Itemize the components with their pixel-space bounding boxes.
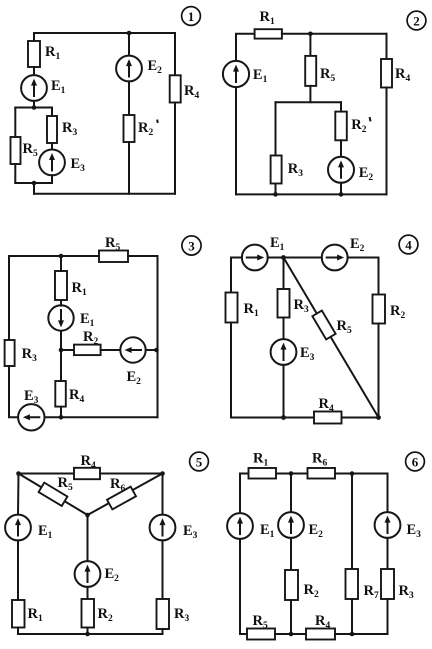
wire R2 to bottom rail: [128, 142, 130, 194]
resistor R1: [12, 600, 43, 628]
svg-text:R3: R3: [294, 297, 309, 315]
wire R3 to bottom rail: [275, 184, 277, 195]
resistor R2: [74, 329, 101, 355]
wire E1 to node: [268, 257, 284, 259]
wire R4 to bottom rail: [174, 103, 176, 194]
source E2: [120, 337, 145, 387]
svg-text:R4: R4: [184, 83, 199, 101]
node right branch / E2 junction: [154, 348, 159, 353]
wire bottom rail circuit 5: [18, 633, 163, 635]
svg-text:R5: R5: [337, 318, 352, 336]
svg-text:R4: R4: [81, 453, 96, 471]
resistor R7: [346, 569, 379, 601]
wire E2 to right branch: [146, 349, 158, 351]
resistor R1: [28, 41, 60, 67]
svg-text:E3: E3: [183, 523, 198, 541]
wire right branch: [157, 256, 159, 417]
node bottom rail / R4 branch: [59, 415, 64, 420]
resistor R4: [306, 613, 335, 640]
resistor R4: [314, 396, 342, 424]
wire right branch to E3: [387, 474, 389, 513]
wire right sub-branch down to R2: [340, 102, 342, 111]
wire R3 to bottom rail: [162, 629, 164, 634]
svg-text:E3: E3: [407, 522, 422, 540]
resistor R5: [99, 235, 128, 262]
svg-text:R4: R4: [69, 387, 84, 405]
svg-text:R4: R4: [315, 613, 330, 631]
wire E1 to R1: [60, 300, 62, 306]
svg-text:E2: E2: [309, 522, 324, 540]
wire E1 to bottom rail: [235, 87, 237, 194]
svg-text:4: 4: [405, 237, 412, 252]
wire R4 top lead: [174, 33, 176, 75]
wire bottom rail circuit 1: [34, 193, 175, 195]
svg-text:3: 3: [188, 238, 195, 253]
source E1: [5, 515, 53, 541]
source E2: [328, 157, 373, 183]
wire left branch to E1: [239, 474, 241, 514]
resistor R1: [255, 9, 282, 39]
wire R4 to middle node: [60, 350, 62, 381]
wire left branch down: [230, 258, 232, 293]
wire E2 to R2: [290, 538, 292, 570]
wire top rail segment 2: [276, 473, 308, 475]
resistor R3: [278, 289, 309, 318]
svg-text:R3: R3: [22, 346, 37, 364]
resistor R5: [247, 613, 275, 640]
resistor R1: [55, 271, 87, 300]
wire top rail segment 1: [240, 473, 249, 475]
resistor R2: [373, 295, 406, 324]
resistor R2: [124, 115, 158, 142]
wire node to R2: [61, 349, 74, 351]
wire bottom rail segment 2: [275, 633, 306, 635]
node top rail / R5 branch: [308, 32, 313, 37]
wire R1 top lead: [33, 33, 35, 41]
wire E2 branch top lead: [290, 474, 292, 513]
node bottom rail / R3 branch: [281, 415, 286, 420]
svg-text:E1: E1: [80, 311, 95, 329]
wire R3 to E3: [51, 143, 53, 150]
wire bottom rail right of R4: [342, 417, 379, 419]
svg-text:5: 5: [196, 454, 203, 469]
source E1: [223, 61, 268, 87]
svg-text:R3: R3: [174, 606, 189, 624]
node top left corner: [16, 471, 21, 476]
node top right corner: [160, 471, 165, 476]
svg-text:R2: R2: [304, 582, 319, 600]
wire E2 to bottom rail: [340, 183, 342, 195]
wire E2 to top right corner: [348, 257, 379, 259]
svg-text:E2: E2: [350, 236, 365, 254]
svg-text:R5: R5: [58, 475, 73, 493]
wire E1 to split node: [33, 101, 35, 108]
node top rail / E2 branch: [289, 471, 294, 476]
svg-text:R7: R7: [364, 583, 379, 601]
wire center node to E2: [87, 515, 89, 561]
wire R5 top lead: [309, 34, 311, 56]
wire bottom rail segment 3: [335, 633, 388, 635]
svg-text:R1: R1: [45, 44, 60, 62]
node center star point: [85, 513, 90, 518]
wire bottom rail circuit 2: [236, 193, 387, 195]
svg-text:E3: E3: [71, 156, 86, 174]
wire node to E2: [284, 257, 322, 259]
svg-text:E1: E1: [270, 235, 285, 253]
wire R3 to bottom rail: [387, 599, 389, 634]
svg-text:R3: R3: [62, 120, 77, 138]
svg-text:E1: E1: [38, 523, 53, 541]
svg-text:1: 1: [188, 9, 195, 24]
source E3: [18, 388, 44, 430]
node split below E1: [32, 105, 37, 110]
wire split horizontal: [15, 107, 52, 109]
resistor R2: [82, 599, 113, 628]
wire right diagonal: [88, 474, 163, 516]
wire R1 to top rail: [60, 256, 62, 271]
node top rail / R7 branch: [350, 471, 355, 476]
wire R5 to split: [309, 86, 311, 102]
svg-text:R5: R5: [105, 235, 120, 253]
wire left branch down to R3: [8, 256, 10, 340]
wire top rail left of R5: [9, 255, 99, 257]
wire left sub-branch down to R3: [275, 102, 277, 155]
svg-text:2: 2: [413, 13, 420, 28]
svg-text:E3: E3: [24, 388, 39, 406]
resistor R4: [170, 75, 200, 102]
svg-text:E1: E1: [51, 78, 66, 96]
svg-text:R2: R2: [138, 120, 153, 138]
wire R2 to bottom rail: [290, 600, 292, 634]
svg-text:R4: R4: [319, 396, 334, 414]
svg-text:R1: R1: [260, 9, 275, 27]
resistor R3: [47, 116, 77, 143]
resistor R3: [5, 340, 37, 366]
resistor R5: [305, 56, 335, 86]
resistor R6: [308, 451, 336, 479]
wire top rail circuit 1: [34, 32, 175, 34]
resistor R3: [381, 569, 414, 601]
resistor R2: [285, 570, 319, 600]
wire left sub-branch down: [14, 108, 16, 138]
wire right sub-branch down: [51, 108, 53, 117]
resistor R1: [249, 451, 277, 479]
svg-text:R3: R3: [399, 583, 414, 601]
wire R3 to bottom corner: [9, 366, 18, 417]
svg-text:R1: R1: [72, 280, 87, 298]
wire split horizontal: [276, 101, 342, 103]
svg-text:R1: R1: [28, 606, 43, 624]
wire node up to E1: [60, 330, 62, 350]
circled number 3: [182, 236, 201, 255]
wire E2 to R2: [128, 81, 130, 115]
wire R2 to E2: [340, 140, 342, 157]
wire top rail right of R1: [282, 33, 387, 35]
svg-text:6: 6: [412, 454, 419, 469]
wire E1 to bottom rail: [239, 539, 241, 634]
node bottom rail / E2 branch: [289, 632, 294, 637]
source E2: [322, 236, 365, 270]
node R3 bottom junction: [273, 192, 278, 197]
svg-text:E3: E3: [300, 345, 315, 363]
circled number 1: [182, 7, 201, 26]
node bottom loop junction: [32, 181, 37, 186]
wire diagonal for R5: [284, 258, 379, 418]
wire E3 to R3: [162, 540, 164, 599]
wire R4 to bottom rail: [386, 88, 388, 195]
source E1: [48, 305, 94, 330]
svg-text:R5: R5: [320, 66, 335, 84]
wire left diagonal: [19, 474, 88, 516]
node junction top rail / E2 branch: [127, 31, 132, 36]
resistor R4: [55, 381, 84, 407]
wire R1 to E1: [33, 67, 35, 75]
wire bottom rail segment 1: [240, 633, 247, 635]
resistor R5: [11, 137, 38, 164]
wire bottom rail left of R4: [231, 417, 314, 419]
svg-text:R6: R6: [110, 476, 125, 494]
resistor R3: [271, 156, 304, 184]
svg-text:E1: E1: [253, 67, 268, 85]
circled number 2: [407, 11, 426, 30]
svg-text:R5: R5: [23, 141, 38, 159]
wire top rail segment 3: [335, 473, 388, 475]
wire R1 to bottom rail: [17, 628, 19, 635]
svg-text:E1: E1: [260, 522, 275, 540]
node E2 bottom junction: [339, 192, 344, 197]
node bottom right corner: [376, 415, 381, 420]
wire R4 bottom lead: [60, 407, 62, 418]
resistor R5: [312, 311, 352, 340]
wire R3 to E3: [283, 318, 285, 340]
wire right branch down: [378, 258, 380, 295]
wire bottom rail: [45, 416, 158, 418]
node bottom rail center: [85, 632, 90, 637]
svg-text:R5: R5: [253, 613, 268, 631]
resistor R1: [226, 293, 259, 323]
wire right branch to E3: [162, 474, 164, 515]
wire top rail left of R4: [19, 473, 75, 475]
resistor R6: [107, 476, 136, 509]
wire R1 to bottom rail: [230, 323, 232, 418]
source E3: [39, 150, 85, 176]
wire top rail right of R4: [100, 473, 163, 475]
wire left branch to E1: [17, 474, 20, 515]
wire stub to bottom rail: [33, 183, 35, 194]
resistor R4: [74, 453, 100, 479]
wire node down to R3: [283, 258, 285, 290]
svg-text:E2: E2: [127, 369, 142, 387]
resistor R3: [157, 599, 190, 629]
wire R7 to bottom rail: [351, 599, 353, 634]
node top junction: [281, 255, 286, 260]
svg-text:R2: R2: [98, 606, 113, 624]
wire top rail right of R5: [128, 255, 158, 257]
circled number 5: [190, 452, 209, 471]
wire top rail left segment: [231, 257, 242, 259]
node middle (R2 junction): [59, 348, 64, 353]
svg-text:R1: R1: [244, 301, 259, 319]
wire R5 to bottom loop: [14, 164, 16, 183]
source E1: [21, 75, 66, 101]
svg-text:R2: R2: [351, 117, 366, 135]
svg-text:R6: R6: [312, 451, 327, 469]
wire E3 to bottom loop: [51, 175, 53, 183]
node top rail / R1 branch: [59, 254, 64, 259]
source E2: [75, 561, 120, 587]
wire R2 to E2: [101, 349, 121, 351]
wire R2 to bottom right corner: [378, 324, 380, 418]
wire E3 to R3: [387, 538, 389, 569]
resistor R4: [381, 59, 410, 88]
source E2: [116, 56, 162, 82]
circled number 6: [406, 452, 425, 471]
wire E2 to R2: [87, 587, 89, 599]
node bottom rail / R7 branch: [350, 632, 355, 637]
source E1: [242, 235, 285, 270]
wire E2 top lead: [128, 33, 130, 56]
svg-text:R4: R4: [395, 66, 410, 84]
source E1: [227, 513, 275, 540]
source E3: [375, 512, 422, 540]
source E3: [271, 339, 315, 365]
svg-text:R1: R1: [253, 451, 268, 469]
wire E1 to R1: [17, 540, 19, 600]
wire R4 top lead: [386, 34, 388, 59]
wire R7 branch top lead: [351, 474, 353, 570]
resistor R5: [39, 475, 73, 506]
wire E3 to bottom rail: [283, 365, 285, 418]
svg-text:E2: E2: [148, 58, 163, 76]
source E2: [278, 512, 323, 540]
svg-text:E2: E2: [105, 566, 120, 584]
svg-text:R2: R2: [390, 303, 405, 321]
wire top-left corner to R1: [236, 34, 255, 62]
circled number 4: [399, 235, 418, 254]
source E3: [150, 515, 198, 541]
wire bottom loop horizontal: [15, 182, 52, 184]
svg-text:R2: R2: [83, 329, 98, 347]
svg-text:R3: R3: [288, 161, 303, 179]
wire R2 to bottom rail: [87, 628, 89, 635]
resistor R2: [335, 112, 370, 141]
svg-text:E2: E2: [359, 165, 374, 183]
